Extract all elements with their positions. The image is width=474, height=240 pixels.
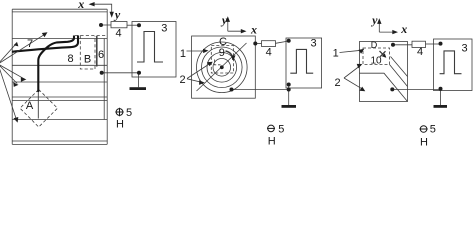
svg-text:1: 1 (180, 48, 186, 60)
svg-text:D: D (371, 40, 378, 50)
svg-text:x: x (250, 23, 257, 37)
svg-text:H: H (420, 137, 428, 149)
svg-text:1: 1 (333, 48, 339, 60)
svg-text:7: 7 (27, 38, 33, 50)
svg-text:3: 3 (161, 23, 167, 35)
svg-text:5: 5 (430, 124, 436, 136)
svg-text:6: 6 (98, 49, 104, 61)
svg-text:10: 10 (370, 56, 382, 67)
svg-text:3: 3 (461, 43, 467, 55)
svg-text:B: B (84, 54, 91, 66)
svg-text:2: 2 (179, 74, 185, 86)
svg-text:8: 8 (67, 53, 73, 65)
svg-text:y: y (220, 13, 228, 27)
svg-text:4: 4 (266, 47, 272, 59)
svg-text:y: y (370, 13, 378, 27)
svg-text:3: 3 (310, 38, 316, 50)
svg-text:y: y (113, 7, 121, 21)
svg-text:H: H (268, 136, 276, 148)
svg-text:4: 4 (417, 46, 423, 58)
svg-text:A: A (26, 100, 34, 112)
svg-text:2: 2 (334, 77, 340, 89)
svg-text:5: 5 (126, 107, 132, 119)
svg-text:5: 5 (278, 124, 284, 136)
svg-text:x: x (400, 22, 407, 36)
svg-text:9: 9 (219, 47, 225, 59)
svg-text:H: H (116, 119, 124, 131)
svg-text:x: x (77, 0, 84, 11)
svg-text:C: C (219, 36, 227, 48)
svg-text:4: 4 (115, 28, 121, 40)
